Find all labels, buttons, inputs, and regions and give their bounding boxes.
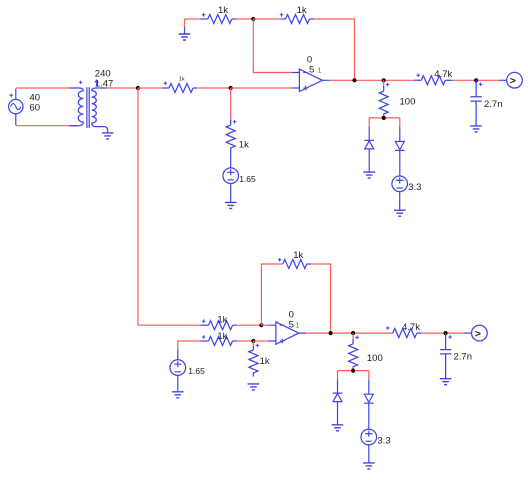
resistor R9 1k (bottom row2) [200, 337, 232, 346]
wire node H to opamp2 - [261, 324, 268, 326]
wire feedback up from node H [261, 264, 282, 325]
transformer primary dot marker [79, 81, 82, 84]
wire right diode drop bottom [368, 371, 370, 380]
resistor R5 100 vertical [379, 86, 388, 118]
ground under D3 [332, 425, 344, 431]
svg-text:4.7k: 4.7k [402, 322, 420, 333]
wire node C to opamp + [231, 87, 292, 89]
wire 4.7k to cap node [453, 79, 499, 81]
junction E 100ohm tap [382, 78, 386, 82]
resistor R2 1k feedback [281, 15, 309, 24]
wire R3 to node C [197, 87, 231, 89]
svg-text:1k: 1k [217, 314, 227, 325]
resistor R12 4.7k bottom [393, 329, 417, 338]
wire diode branch node [369, 115, 400, 118]
resistor R6 4.7k [414, 76, 445, 85]
voltage source V5 3.3 [361, 429, 377, 445]
node B junction [136, 86, 140, 90]
junction F cap tap [474, 78, 478, 82]
transformer ground [102, 133, 114, 139]
wire ac top to transformer [16, 87, 71, 89]
svg-text:1k: 1k [297, 5, 307, 16]
wire node C down to R4 [230, 88, 232, 120]
svg-text:4.7k: 4.7k [434, 69, 452, 80]
voltage source V3 3.3 [392, 176, 408, 192]
svg-text:1k: 1k [293, 250, 303, 261]
svg-text:>: > [475, 328, 481, 340]
junction L cap tap [444, 331, 448, 335]
svg-text:60: 60 [30, 102, 41, 113]
wire ground to R1 [185, 18, 201, 20]
svg-text:100: 100 [400, 97, 416, 108]
transformer TR1 core [87, 87, 89, 128]
svg-text:3.3: 3.3 [377, 435, 390, 446]
node C junction [229, 86, 233, 90]
wire R7 to node H [237, 324, 262, 326]
ground under V2 [230, 184, 232, 203]
svg-text:1k: 1k [260, 356, 270, 367]
svg-text:>: > [510, 75, 516, 87]
svg-text:1: 1 [295, 322, 299, 329]
ground top-left [184, 19, 186, 27]
ground under R10 [248, 384, 260, 390]
ground under V5 [368, 445, 370, 463]
resistor R3 1k (series input) [163, 84, 194, 93]
node I junction [251, 339, 255, 343]
wire left diode drop [368, 118, 370, 127]
svg-text:1k: 1k [217, 331, 227, 342]
resistor R4 1k vertical [226, 120, 235, 155]
resistor R7 1k (bottom row1) [200, 321, 232, 330]
wire node B to R3 [138, 87, 163, 89]
wire node A to R2 [253, 18, 281, 20]
wire R1 to node A [237, 18, 254, 20]
wire R4 to V2 [230, 155, 232, 168]
svg-text:1.65: 1.65 [239, 174, 256, 184]
ground under C2 [440, 379, 452, 385]
ac voltage source VG1 40/60 [9, 99, 23, 113]
probe VM2 [464, 332, 472, 334]
svg-text:2.7n: 2.7n [484, 99, 503, 110]
node M junction [351, 369, 355, 373]
transformer TR1 secondary coil [92, 88, 108, 132]
svg-text:5: 5 [309, 65, 314, 76]
svg-text:1: 1 [318, 68, 322, 75]
node H junction [259, 323, 263, 327]
svg-text:2.7n: 2.7n [454, 352, 473, 363]
wire opamp output [330, 79, 415, 81]
wire node I to opamp2 + [253, 340, 268, 342]
wire feedback right and down [311, 264, 331, 333]
voltage source V2 1.65 [223, 168, 239, 184]
ground under C1 [470, 126, 482, 132]
resistor R11 100 vertical bottom [349, 339, 358, 371]
resistor R8 1k feedback bottom [283, 260, 307, 269]
wire left diode drop bottom [337, 371, 339, 380]
wire node I down [252, 341, 254, 346]
capacitor C2 2.7n [440, 333, 451, 378]
svg-text:3.3: 3.3 [408, 182, 421, 193]
wire ac bottom to transformer [16, 125, 76, 127]
wire transformer to node B [107, 87, 138, 89]
resistor R1 1k [200, 15, 231, 24]
wire 4.7k to cap node bottom [421, 332, 464, 334]
wire junction K down [352, 333, 354, 339]
wire V4 corner to R9 [178, 341, 201, 349]
probe VM1 [499, 79, 507, 81]
ground under V4 [177, 375, 179, 391]
svg-text:1.65: 1.65 [188, 366, 205, 376]
wire opamp2 output [306, 332, 393, 334]
voltage source V4 1.65 [170, 360, 186, 376]
node G junction [382, 116, 386, 120]
diode D1 (up) [368, 127, 370, 141]
capacitor C1 2.7n [470, 80, 481, 125]
junction J feedback tap [329, 331, 333, 335]
resistor R10 1k vertical bottom [249, 346, 258, 377]
wire R2 to feedback corner and down [314, 19, 354, 80]
wire long rail node B to bottom [138, 88, 200, 325]
ground under V3 [399, 192, 401, 210]
svg-text:100: 100 [367, 353, 383, 364]
ground under D1 [363, 172, 375, 178]
wire right diode drop [399, 118, 401, 127]
wire bottom diode node [338, 367, 369, 370]
wire junction E down [383, 80, 385, 86]
junction D feedback tap [352, 78, 356, 82]
wire node A down to opamp - [253, 19, 291, 73]
diode D4 (down) bottom [368, 379, 370, 394]
svg-text:1k: 1k [179, 77, 185, 83]
transformer TR1 primary coil [69, 88, 83, 126]
diode D2 (down) [399, 127, 401, 142]
op-amp U1 [292, 73, 330, 89]
svg-text:1k: 1k [239, 140, 249, 151]
node A junction [251, 17, 255, 21]
wire V4 up [177, 349, 179, 360]
svg-text:1k: 1k [218, 5, 228, 16]
diode D3 (up) bottom [337, 379, 339, 393]
op-amp U2 [268, 325, 306, 341]
svg-text:5: 5 [289, 319, 294, 330]
wire R9 to node I [237, 340, 254, 342]
junction K 100ohm tap [351, 331, 355, 335]
